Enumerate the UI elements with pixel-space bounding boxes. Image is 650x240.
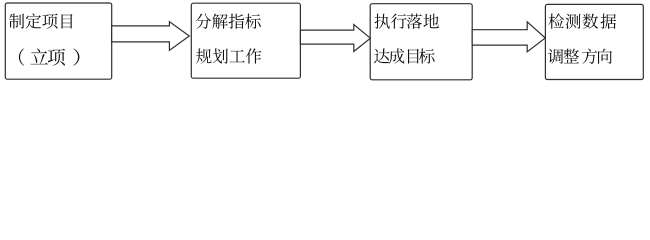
flow arrow 1: box 1 to box 2: [112, 22, 190, 51]
process box 3: 执行落地 达成目标: [370, 4, 472, 80]
box 4 label line 2: 调整方向: [548, 49, 612, 64]
box 2 label line 2: 规划工作: [196, 48, 261, 63]
box 1 label line 2: （立项）: [19, 48, 80, 65]
box 1 label line 1: 制定项目: [9, 13, 73, 28]
process box 2: 分解指标 规划工作: [191, 3, 300, 78]
flow arrow 2: box 2 to box 3: [300, 25, 370, 52]
box 3 label line 2: 达成目标: [374, 48, 435, 63]
box 4 label line 1: 检测数据: [549, 14, 617, 29]
process box 1: 制定项目（立项）: [5, 3, 111, 79]
flow arrow 3: box 3 to box 4: [472, 22, 545, 52]
process box 4: 检测数据 调整方向: [545, 4, 643, 79]
box 2 label line 1: 分解指标: [196, 14, 261, 29]
box 3 label line 1: 执行落地: [375, 14, 439, 29]
